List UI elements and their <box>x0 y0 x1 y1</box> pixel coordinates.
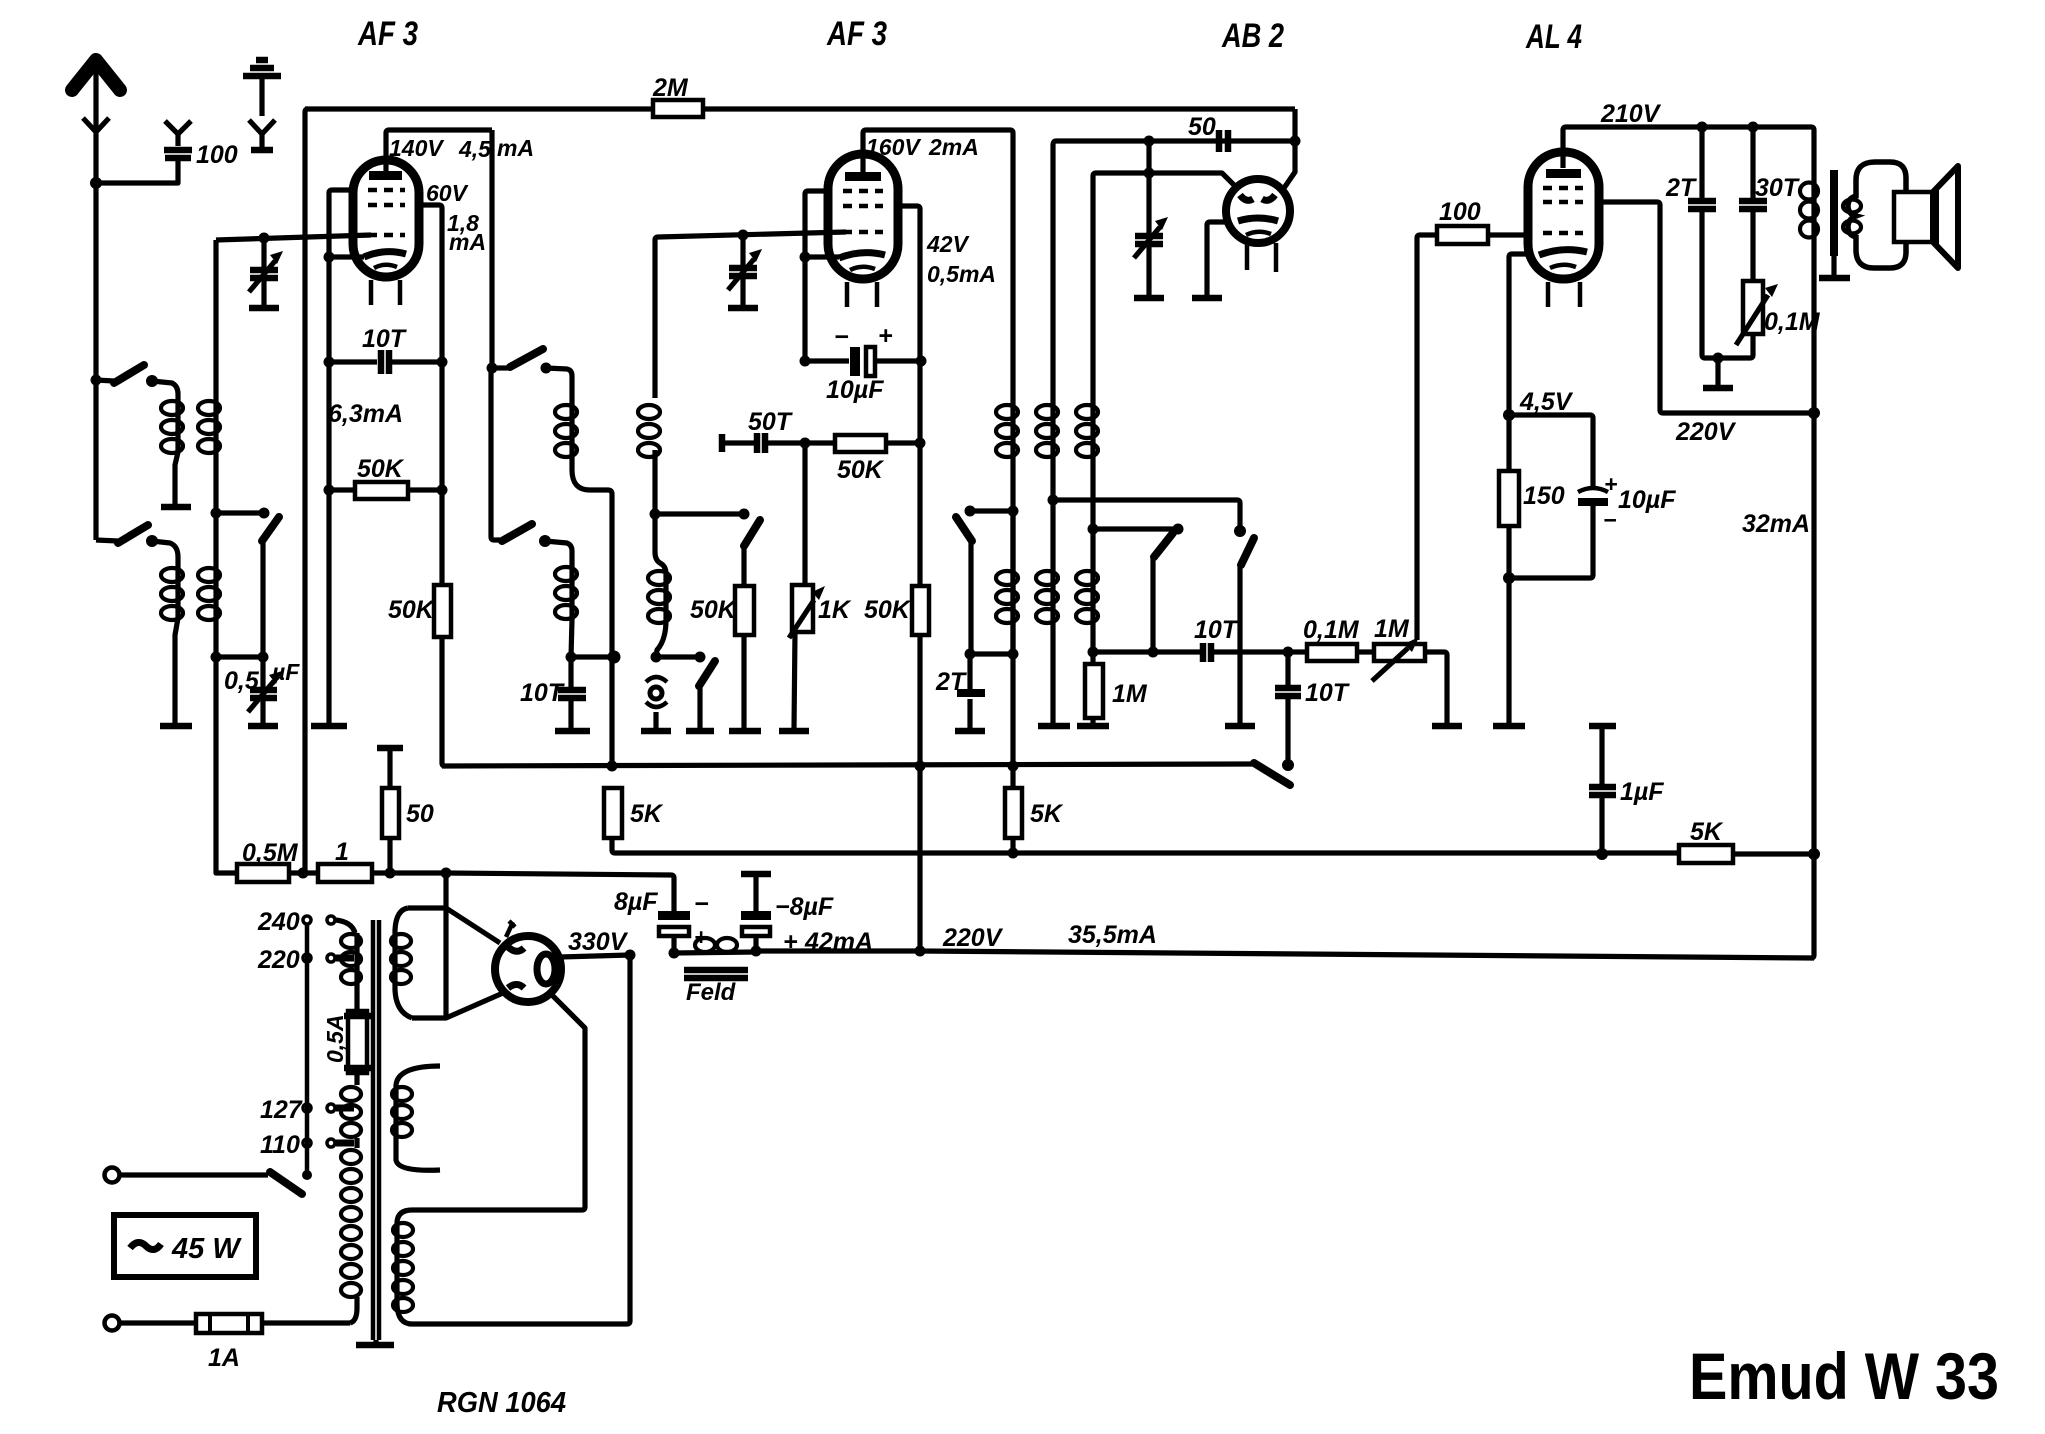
svg-text:10µF: 10µF <box>826 376 884 404</box>
svg-text:220: 220 <box>257 946 300 974</box>
electrolytic 10µF (cathode II) <box>800 347 927 376</box>
ground (transformer core) <box>1819 275 1850 282</box>
mains terminal (neutral) <box>105 1316 197 1331</box>
node: L8 tap <box>1048 495 1059 506</box>
tube AL4 screen grid (dashed) <box>1543 186 1583 191</box>
node: 50 cap right / AVC return <box>1290 136 1301 147</box>
svg-text:0,1M: 0,1M <box>1303 616 1360 644</box>
wire: AVC return bus <box>615 850 1679 855</box>
wire: detector line <box>1093 173 1096 652</box>
switch S1a (antenna band switch) <box>96 525 178 557</box>
tube AL4 envelope <box>1528 152 1599 279</box>
node: bias network bottom <box>1503 572 1515 584</box>
ground (50K) <box>729 728 761 735</box>
capacitor 10T (series, AF takeoff) <box>1093 643 1288 662</box>
trimmer capacitor C1 (grid, variable) <box>249 238 283 308</box>
wire: cathode lead <box>329 254 364 259</box>
svg-text:2T: 2T <box>1665 174 1698 202</box>
svg-text:−: − <box>694 890 709 918</box>
node: trimmer C5 hang <box>1144 168 1155 179</box>
tube AB2 envelope <box>1226 179 1290 243</box>
svg-text:1M: 1M <box>1374 615 1410 643</box>
node: L9 bottom <box>1088 647 1099 658</box>
tube AB2 cathode <box>1238 218 1278 221</box>
svg-text:−: − <box>834 323 849 351</box>
svg-text:127: 127 <box>260 1096 303 1124</box>
svg-text:5K: 5K <box>1690 818 1724 846</box>
resistor 50K (vertical, grid3 II) <box>912 586 929 635</box>
capacitor 50 <box>1219 130 1228 152</box>
node: 1µF junction <box>1596 848 1608 860</box>
svg-text:2mA: 2mA <box>928 134 979 160</box>
coil L3 (IF1 primary upper) <box>555 398 608 490</box>
svg-text:1M: 1M <box>1112 680 1148 708</box>
trimmer capacitor C5 (variable) <box>1134 141 1168 298</box>
svg-text:32mA: 32mA <box>1742 510 1810 538</box>
node: choke output <box>751 946 762 957</box>
svg-text:50K: 50K <box>864 596 912 624</box>
svg-text:100: 100 <box>196 141 238 169</box>
wire: 0,5M feed down <box>216 657 237 873</box>
tube AF3 II grid3 (dashed) <box>843 204 883 209</box>
svg-text:5K: 5K <box>1030 800 1064 828</box>
node: B+ tap junction <box>385 868 396 879</box>
wire: g3 lead 60V down <box>419 205 442 585</box>
wire: AVC bus corner down to AB2 <box>1284 109 1295 188</box>
antenna symbol <box>72 60 120 183</box>
mains terminal (line) <box>105 1168 269 1183</box>
wire: AL4 screen lead <box>1599 202 1663 413</box>
potentiometer 0,1M (tone) <box>1703 281 1778 388</box>
wire: stage I right bracket <box>489 130 494 368</box>
electrolytic 8µF (first filter) <box>658 911 690 951</box>
resistor 5K (II) <box>1005 788 1022 838</box>
node: cathode junction <box>324 252 335 263</box>
wire: AB2 stage bracket <box>1053 141 1056 724</box>
output transformer primary <box>1800 183 1818 238</box>
fuse 1A <box>196 1314 350 1333</box>
node: cathode 4,5V <box>1503 409 1515 421</box>
wire: filament top lead <box>443 873 448 908</box>
tube AL4 grid3 (dashed) <box>1543 200 1583 205</box>
field coil choke (Feld) <box>674 938 756 978</box>
svg-text:160V: 160V <box>866 134 921 160</box>
svg-text:45 W: 45 W <box>171 1233 242 1265</box>
tube AL4 control grid (dashed) <box>1543 231 1583 236</box>
wire: AVC divider column <box>608 490 612 766</box>
node: 220V riser foot <box>915 946 926 957</box>
power rating box ~45W <box>114 1215 256 1277</box>
svg-text:140V: 140V <box>389 135 444 161</box>
power transformer primary winding <box>341 933 361 1323</box>
speaker frame with secondary <box>1843 162 1906 268</box>
svg-text:50: 50 <box>1188 113 1216 141</box>
svg-text:AL 4: AL 4 <box>1525 18 1582 56</box>
tube AL4 cathode <box>1539 250 1587 255</box>
tube AF3 I heater stubs <box>369 280 374 305</box>
ground (L1) <box>160 723 192 730</box>
resistor 50K (diode load) <box>735 586 754 635</box>
resistor 50K (horizontal) <box>324 482 448 499</box>
ground (AL4 cathode) <box>1493 723 1525 730</box>
svg-text:150: 150 <box>1523 482 1565 510</box>
wire: AB2 cathode to ground <box>1207 222 1226 296</box>
svg-text:50T: 50T <box>748 408 794 436</box>
resistor 100 (grid stopper AL4) <box>1417 226 1528 640</box>
resistor 1 (surge) <box>318 864 446 882</box>
tube AF3 II heater stubs <box>845 282 850 307</box>
svg-text:50: 50 <box>406 800 434 828</box>
svg-text:50K: 50K <box>388 596 436 624</box>
svg-text:10T: 10T <box>1194 616 1240 644</box>
wire: 220V screen feed <box>1663 410 1814 415</box>
svg-text:1: 1 <box>335 838 349 866</box>
power transformer core <box>371 920 376 1340</box>
wire: grid column down to band switch <box>213 240 218 657</box>
wire: filament bottom lead <box>412 993 503 1018</box>
wire: plate HT riser <box>1811 413 1814 958</box>
coil L2 (antenna coil secondary) <box>198 568 220 620</box>
svg-text:10µF: 10µF <box>1618 486 1676 514</box>
svg-text:AF 3: AF 3 <box>357 15 418 53</box>
svg-text:6,3mA: 6,3mA <box>328 400 403 428</box>
tube AF3 I grid3 (dashed) <box>368 203 405 208</box>
svg-text:50K: 50K <box>837 456 885 484</box>
wire: AL4 cathode down <box>1509 254 1528 471</box>
resistor 5K (III, AVC series) <box>1679 845 1733 863</box>
wire: tap selector column <box>305 924 310 1174</box>
svg-text:0,5: 0,5 <box>224 667 260 695</box>
wire: AB2 input line <box>1056 138 1292 143</box>
svg-text:mA: mA <box>449 229 486 255</box>
node: L6 bottom junction <box>651 652 662 663</box>
svg-text:8µF: 8µF <box>614 888 658 916</box>
trimmer capacitor 0,5µF <box>248 657 282 726</box>
resistor 0,1M <box>1288 644 1374 661</box>
node: AF node <box>1283 647 1294 658</box>
node: IF2 primary top junction <box>965 649 976 660</box>
tube AF3 I anode <box>369 171 402 180</box>
inner box 140V / 4,5 mA <box>386 130 492 174</box>
node: L4 bottom junction <box>566 652 577 663</box>
svg-text:42V: 42V <box>926 231 970 257</box>
HV winding <box>393 1210 627 1324</box>
switch S2a (plate circuit) <box>487 349 573 398</box>
svg-text:−: − <box>1603 507 1616 533</box>
resistor 150 (cathode bias) <box>1499 471 1519 526</box>
wire: stage I box left edge <box>305 109 308 873</box>
node: screen bus junctions <box>607 761 618 772</box>
output transformer core <box>1830 170 1838 256</box>
rectifier anode <box>537 954 555 984</box>
wire: 210V plate line <box>1563 127 1814 413</box>
svg-text:35,5mA: 35,5mA <box>1068 921 1157 949</box>
wire: B+ to first filter cap <box>446 873 674 911</box>
mains tap 127 <box>260 1096 354 1124</box>
node: AVC column junction <box>608 651 621 664</box>
coil L6 (IF1 secondary lower) <box>648 514 670 657</box>
node: grid junction trimmer C1 <box>259 233 270 244</box>
potentiometer 1M (volume) <box>1372 637 1462 726</box>
svg-text:−8µF: −8µF <box>775 893 834 921</box>
svg-text:AB 2: AB 2 <box>1221 17 1284 55</box>
svg-text:2T: 2T <box>935 668 968 696</box>
node: grid junction trimmer C3 <box>738 230 749 241</box>
wire: anode lead to HV winding <box>551 994 585 1210</box>
svg-text:mA: mA <box>497 135 534 161</box>
capacitor 30T <box>1739 127 1767 281</box>
svg-text:Emud W 33: Emud W 33 <box>1689 1339 1999 1413</box>
switch S1b <box>211 508 280 658</box>
capacitor 10T (cathode bypass) <box>324 350 448 374</box>
wire: rectifier output <box>560 955 630 957</box>
svg-text:10T: 10T <box>520 679 566 707</box>
capacitor 10T (AF coupling to ground switch) <box>1275 652 1301 765</box>
coil L0a (upper antenna coil) <box>161 394 183 505</box>
tube AF3 II cathode <box>839 253 885 258</box>
trimmer capacitor C3 (grid II, variable) <box>728 235 762 308</box>
earth terminal symbol <box>243 60 281 150</box>
capacitor 2T <box>955 654 985 731</box>
coil L8 (IF2 secondary) <box>1036 405 1058 623</box>
node: rectifier filament tap <box>441 868 452 879</box>
rectifier top mark <box>506 921 515 937</box>
node: L2/C2 junction row <box>211 652 222 663</box>
node: AVC/plate junction <box>1808 848 1820 860</box>
potentiometer 1K <box>779 443 825 731</box>
wire: screen bus 220V <box>442 764 1254 766</box>
node: L9 tap row <box>1088 524 1099 535</box>
coil L4 (IF1 primary lower) <box>555 560 577 657</box>
svg-text:1A: 1A <box>208 1344 240 1372</box>
svg-text:220V: 220V <box>942 924 1004 952</box>
node: 2T/30T taps <box>1697 122 1708 133</box>
svg-text:5K: 5K <box>630 800 664 828</box>
svg-text:0,5mA: 0,5mA <box>927 261 996 287</box>
svg-text:4,5V: 4,5V <box>1519 388 1574 416</box>
speaker driver and cone <box>1894 166 1958 268</box>
svg-text:240: 240 <box>257 908 300 936</box>
node: antenna junction <box>90 177 102 189</box>
svg-text:AF 3: AF 3 <box>826 15 887 53</box>
resistor 0,5M <box>237 864 289 882</box>
svg-text:110: 110 <box>260 1131 300 1159</box>
switch S4 (muting) <box>686 652 715 732</box>
heater winding 4V <box>392 1066 440 1170</box>
svg-text:RGN 1064: RGN 1064 <box>437 1387 566 1419</box>
rectifier tube RGN1064 envelope <box>495 936 561 1002</box>
switch S8 (tone) <box>1254 763 1290 785</box>
svg-text:30T: 30T <box>1755 174 1801 202</box>
rectifier filament winding <box>391 908 412 1018</box>
tube AF3 II screen grid (dashed) <box>843 189 883 194</box>
wire: 220V riser <box>917 635 922 951</box>
tube AB2 diode anodes <box>1240 195 1253 200</box>
wire: grid line AF3 II <box>655 232 846 398</box>
switch S9 (mains) <box>270 1170 312 1194</box>
svg-text:Feld: Feld <box>686 979 737 1006</box>
tube AL4 heater stubs <box>1546 282 1551 307</box>
node: 50 cap left <box>1144 136 1155 147</box>
wire: tap line to switch S7 <box>1053 500 1240 528</box>
svg-text:2M: 2M <box>652 74 689 102</box>
tube AF3 II anode <box>845 172 881 181</box>
electrolytic 8µF (second filter) <box>741 874 771 951</box>
capacitor 1µF (tone) <box>1589 726 1616 854</box>
ground (L0a) <box>161 504 191 511</box>
resistor 5K (I) <box>604 788 622 853</box>
inner box 160V / 2mA <box>863 130 1013 657</box>
tube AB2 heater stubs <box>1245 243 1250 270</box>
capacitor 50T with series 50K <box>722 433 926 453</box>
wire: 50K down to screen bus <box>442 637 445 766</box>
coil L0b (upper grid coil) <box>198 401 220 453</box>
tube AF3 I cathode <box>364 252 406 257</box>
wire: filament link <box>443 908 448 1018</box>
wire: grid line AF3 I <box>216 235 371 240</box>
svg-text:210V: 210V <box>1600 100 1662 128</box>
svg-text:220V: 220V <box>1675 418 1737 446</box>
ground (transformer core) <box>356 1342 394 1349</box>
mains tap 220 <box>257 946 354 974</box>
svg-text:+: + <box>1604 471 1617 497</box>
tube AF3 I control grid (dashed) <box>368 233 405 238</box>
wire: g3 lead II down <box>898 206 920 586</box>
wire: g2 lead II down <box>805 191 828 361</box>
capacitor 100 (antenna series) <box>96 121 192 183</box>
node: tone switch contact <box>1282 759 1294 771</box>
tube AF3 I envelope <box>353 160 419 277</box>
coil L1 (antenna coil primary) <box>161 557 183 724</box>
svg-text:10T: 10T <box>362 325 408 353</box>
wire: cathode lead II <box>805 254 839 259</box>
svg-text:0,5A: 0,5A <box>322 1014 348 1063</box>
electrolytic 10µF (cathode bypass AL4) <box>1509 415 1608 578</box>
switch S2b <box>491 368 572 560</box>
ground (L8) <box>1038 723 1070 730</box>
switch S3 (to 50K) <box>739 509 761 587</box>
node: choke input <box>669 948 680 959</box>
node: screen bus / 5K II <box>1008 761 1019 772</box>
svg-text:100: 100 <box>1439 198 1481 226</box>
ground (cathode column) <box>311 723 347 730</box>
svg-text:µF: µF <box>271 659 300 685</box>
wire: antenna bus down left side <box>93 183 98 540</box>
svg-text:+: + <box>878 322 893 350</box>
resistor 1M (diode load) <box>1077 652 1109 726</box>
svg-text:0,1M: 0,1M <box>1764 308 1821 336</box>
coil L9 (detector coil) <box>1076 405 1098 623</box>
adjustable core indicator <box>641 677 671 731</box>
svg-text:50K: 50K <box>690 596 738 624</box>
svg-text:1µF: 1µF <box>1620 778 1664 806</box>
rectifier filament hooks <box>508 947 524 951</box>
node: junction 0,5M / stage box <box>298 868 309 879</box>
switch S6 <box>1148 533 1174 658</box>
switch S7 <box>1225 525 1255 726</box>
resistor 50 (hum bucking) <box>377 748 403 873</box>
svg-text:60V: 60V <box>426 180 469 206</box>
svg-text:50K: 50K <box>357 455 405 483</box>
node: upper band switch junction <box>91 375 102 386</box>
tube AF3 II envelope <box>828 154 898 279</box>
mains tap 110 <box>260 1131 354 1159</box>
node: L5 tap junction <box>650 509 661 520</box>
svg-text:330V: 330V <box>568 928 629 956</box>
wire: HV winding bottom riser <box>627 955 630 1324</box>
tube AL4 anode <box>1546 169 1581 178</box>
resistor 50K (vertical, grid3) <box>434 585 451 637</box>
wire: main HT bottom bus <box>756 951 1814 958</box>
svg-text:4,5: 4,5 <box>458 136 492 162</box>
mains tap 240 <box>257 908 355 936</box>
wire: g2 lead to cathode column <box>329 190 353 724</box>
tube AF3 I screen grid (dashed) <box>368 188 405 193</box>
capacitor 10T (AVC bypass) <box>555 657 590 731</box>
coil L7 (IF2 primary) <box>996 405 1018 786</box>
switch S0a (upper wave band) <box>96 365 178 394</box>
switch S5 <box>956 506 1019 655</box>
svg-text:10T: 10T <box>1305 679 1351 707</box>
node: HV return junction <box>625 950 636 961</box>
coil L5 (IF1 secondary upper) <box>638 405 660 514</box>
svg-text:0,5M: 0,5M <box>242 839 299 867</box>
svg-text:1K: 1K <box>818 596 852 624</box>
capacitor 2T (plate) <box>1688 127 1716 358</box>
tube AF3 II control grid (dashed) <box>843 230 883 235</box>
wire: AVC top bus with resistor 2M <box>305 100 1295 117</box>
fuse 0,5A <box>344 1011 371 1073</box>
